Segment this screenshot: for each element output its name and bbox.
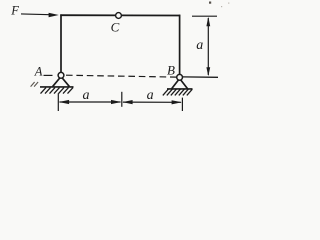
support B hatching: [163, 89, 193, 95]
right member: [179, 15, 181, 75]
svg-text:a: a: [147, 88, 154, 103]
support B ground line: [167, 88, 193, 90]
bottom dimension extension ticks: [58, 92, 182, 111]
specks: [209, 2, 229, 8]
svg-text:a: a: [196, 38, 203, 53]
support A triangle: [53, 77, 70, 87]
left member: [60, 14, 62, 72]
hinge C: [116, 13, 122, 19]
stray hatch marks left of A: [31, 82, 38, 87]
svg-text:a: a: [83, 88, 90, 103]
force F arrow: [21, 13, 59, 17]
right dimension top tick: [192, 15, 217, 17]
support A hatching: [41, 88, 74, 94]
svg-text:B: B: [167, 62, 175, 77]
top beam: [60, 14, 180, 16]
support A ground line: [40, 86, 74, 88]
support B triangle: [172, 79, 188, 89]
svg-text:F: F: [10, 4, 19, 18]
dashed line A to B: [66, 75, 177, 77]
line from B pin to dimension line: [183, 76, 218, 78]
dash left of support A: [44, 74, 53, 76]
support A pin: [58, 72, 64, 78]
bottom dimension lines: [59, 100, 182, 105]
svg-text:A: A: [34, 64, 43, 78]
support B pin: [177, 74, 183, 80]
right dimension line a: [206, 17, 210, 77]
svg-text:C: C: [111, 19, 120, 34]
